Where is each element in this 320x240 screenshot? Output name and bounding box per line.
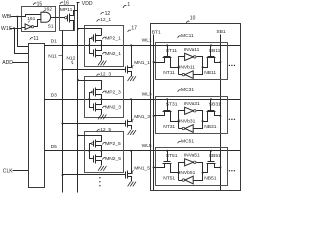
- decoder block 11 box: [29, 44, 45, 188]
- svg-text:SB1: SB1: [216, 29, 226, 35]
- wire ST51 to BT1: [154, 164, 165, 168]
- svg-text:MP11: MP11: [60, 7, 73, 13]
- svg-text:162: 162: [44, 7, 52, 13]
- svg-text:17: 17: [131, 25, 137, 31]
- svg-text:NB11: NB11: [204, 70, 216, 76]
- ellipsis row 1: [229, 65, 230, 66]
- wire MP11 source to VDD: [70, 11, 78, 16]
- svg-text:INVa11: INVa11: [184, 47, 200, 53]
- svg-text:10: 10: [190, 16, 196, 22]
- wire latch loop MC11: [179, 57, 185, 75]
- svg-text:D5: D5: [51, 144, 58, 150]
- svg-text:MN1_1: MN1_1: [134, 60, 150, 66]
- svg-text:MP2_3: MP2_3: [105, 90, 121, 96]
- transistor MP2_5: [93, 141, 95, 147]
- wire MN1_1 source to ground: [128, 72, 132, 77]
- wire MN1_3 source to ground: [128, 126, 132, 130]
- svg-text:12_1: 12_1: [100, 17, 111, 23]
- transistor MP2_3: [93, 89, 95, 96]
- svg-text:1: 1: [127, 2, 130, 8]
- wire MN1_5 gate to N11: [63, 174, 126, 176]
- node W1S junction: [13, 27, 15, 29]
- label 10: [186, 21, 189, 23]
- label 1: [123, 5, 126, 8]
- memory cell MC51 box: [156, 148, 228, 186]
- wire ST11 to BT1: [154, 58, 165, 63]
- wire VDD rail vertical: [77, 3, 79, 193]
- inverter 161: [25, 24, 31, 30]
- wire 161 output to gate 162: [34, 20, 41, 27]
- svg-text:D3: D3: [51, 92, 58, 98]
- svg-text:MN2_1: MN2_1: [105, 51, 121, 57]
- svg-text:INVb51: INVb51: [179, 170, 196, 176]
- net N11 vertical line: [62, 31, 64, 193]
- ground driver row 1: [98, 61, 101, 66]
- svg-text:INVb31: INVb31: [179, 119, 196, 125]
- wire ST51 to node NT51: [171, 164, 179, 173]
- wire VDD stub row 1: [77, 28, 79, 30]
- label 12_1: [97, 20, 100, 22]
- svg-text:MP2_5: MP2_5: [105, 141, 121, 147]
- bit line SB1: [220, 35, 222, 191]
- svg-text:WL3: WL3: [142, 91, 152, 97]
- svg-text:NT11: NT11: [163, 70, 175, 76]
- node D1 / N11 junction: [62, 44, 64, 46]
- wire VDD stub row 3: [77, 79, 79, 81]
- ellipsis row 3: [229, 119, 230, 120]
- svg-text:MC51: MC51: [181, 138, 194, 144]
- wire SB11 to node NB11: [203, 58, 208, 68]
- wire MP11 drain: [70, 21, 74, 31]
- label 12_3: [97, 74, 100, 76]
- svg-text:NB31: NB31: [204, 124, 217, 130]
- transistor MN2_5: [93, 156, 95, 163]
- transistor MN2_1: [93, 50, 95, 57]
- wire S1 to MP11 gate: [51, 17, 65, 19]
- wire SB31 to SB1: [215, 112, 221, 116]
- wire MN1_1 drain to WL1: [128, 46, 132, 68]
- svg-text:161: 161: [27, 16, 35, 22]
- svg-text:16: 16: [63, 1, 69, 7]
- svg-text:MC11: MC11: [181, 33, 194, 39]
- ground driver row 5: [98, 166, 101, 171]
- svg-text:N12: N12: [66, 55, 75, 61]
- memory cell MC11 box: [156, 43, 228, 80]
- label 11: [30, 38, 33, 40]
- block 16 box: [60, 6, 75, 31]
- svg-text:11: 11: [33, 36, 38, 42]
- wire WBl to decoder 11: [18, 17, 29, 47]
- transistor MP2_1: [93, 35, 95, 42]
- driver block 12_3 box: [85, 77, 124, 118]
- svg-text:NT51: NT51: [163, 175, 175, 181]
- wire SB11 to SB1: [215, 58, 221, 63]
- svg-text:NT31: NT31: [163, 124, 175, 130]
- svg-text:MN1_5: MN1_5: [134, 165, 150, 171]
- svg-text:MN1_3: MN1_3: [134, 114, 150, 120]
- wire gate fork row 3: [90, 93, 94, 108]
- array block 10 box: [151, 24, 241, 191]
- wire gate fork row 5: [90, 144, 94, 159]
- svg-text:MN2_5: MN2_5: [105, 156, 121, 162]
- block 15 box: [22, 7, 56, 32]
- svg-text:WBl: WBl: [2, 14, 11, 20]
- node input fork row 5: [88, 150, 90, 152]
- svg-text:WL5: WL5: [142, 143, 152, 149]
- svg-text:VDD: VDD: [82, 1, 93, 7]
- wire latch loop MC51: [179, 163, 185, 181]
- power VDD: [77, 2, 80, 4]
- svg-text:MP2_1: MP2_1: [105, 36, 121, 42]
- svg-text:NB51: NB51: [204, 175, 217, 181]
- node input fork row 3: [88, 98, 90, 100]
- word line row 3 wire D3/WL3: [45, 99, 241, 101]
- node input fork row 1: [88, 44, 90, 46]
- wire MN1_1 gate to N11: [63, 69, 126, 71]
- label 16: [60, 2, 63, 4]
- svg-text:12_5: 12_5: [100, 127, 111, 133]
- ground MN1_3: [128, 130, 131, 135]
- svg-text:INVa31: INVa31: [184, 101, 200, 107]
- svg-text:D1: D1: [51, 38, 58, 44]
- wire MN1_5 drain to WL5: [128, 151, 132, 174]
- wire ST31 to BT1: [154, 112, 165, 116]
- label 12 driver column: [101, 12, 104, 14]
- label MC51: [178, 141, 181, 143]
- svg-text:MN2_3: MN2_3: [105, 105, 121, 111]
- wire SB51 to node NB51: [203, 164, 208, 173]
- wire ST31 to node NT31: [171, 112, 179, 122]
- memory cell MC31 box: [156, 97, 228, 134]
- ground MN1_1: [128, 76, 131, 81]
- transistor MN2_3: [93, 104, 95, 111]
- svg-text:15: 15: [37, 1, 43, 7]
- node WBl junction: [16, 16, 18, 18]
- ground MN1_5: [128, 182, 131, 187]
- label 12_5: [97, 130, 100, 132]
- svg-text:S1: S1: [48, 24, 54, 30]
- wire MN1_3 drain to WL3: [128, 100, 132, 122]
- ground driver row 3: [98, 115, 101, 120]
- svg-text:INVa51: INVa51: [184, 153, 200, 159]
- svg-text:MC31: MC31: [181, 87, 194, 93]
- word line row 1 wire D1/WL1: [45, 45, 241, 47]
- ellipsis row 5: [229, 170, 230, 171]
- wire MN1_5 source to ground: [128, 177, 132, 182]
- label MC11: [178, 36, 181, 38]
- wire SB51 to SB1: [215, 164, 221, 168]
- wire SB31 to node NB31: [203, 112, 208, 122]
- label 15: [33, 3, 36, 5]
- svg-text:12_3: 12_3: [100, 71, 111, 77]
- svg-text:ADD: ADD: [2, 60, 13, 66]
- wire MN1_3 gate to N11: [63, 123, 126, 125]
- svg-text:12: 12: [105, 11, 111, 17]
- wire ST11 to node NT11: [171, 58, 179, 68]
- svg-text:WL1: WL1: [142, 37, 152, 43]
- driver block 12_1 box: [85, 26, 124, 67]
- AND gate 162: [41, 12, 51, 22]
- svg-text:CLK: CLK: [3, 169, 14, 175]
- wire gate fork row 1: [90, 39, 94, 54]
- driver block 12_5 box: [85, 132, 124, 173]
- label MC31: [178, 90, 181, 92]
- wire WBl into gate 162: [22, 15, 41, 17]
- bit line BT1: [153, 35, 155, 191]
- svg-text:N11: N11: [48, 53, 57, 59]
- svg-text:INVb11: INVb11: [179, 65, 195, 71]
- ellipsis below drivers: [99, 177, 100, 178]
- wire W1S to decoder 11: [15, 29, 29, 54]
- label 17 word lines: [128, 30, 131, 32]
- word line row 5 wire D5/WL5: [45, 150, 241, 152]
- wire VDD stub row 5: [77, 134, 79, 136]
- wire latch loop MC31: [179, 111, 185, 129]
